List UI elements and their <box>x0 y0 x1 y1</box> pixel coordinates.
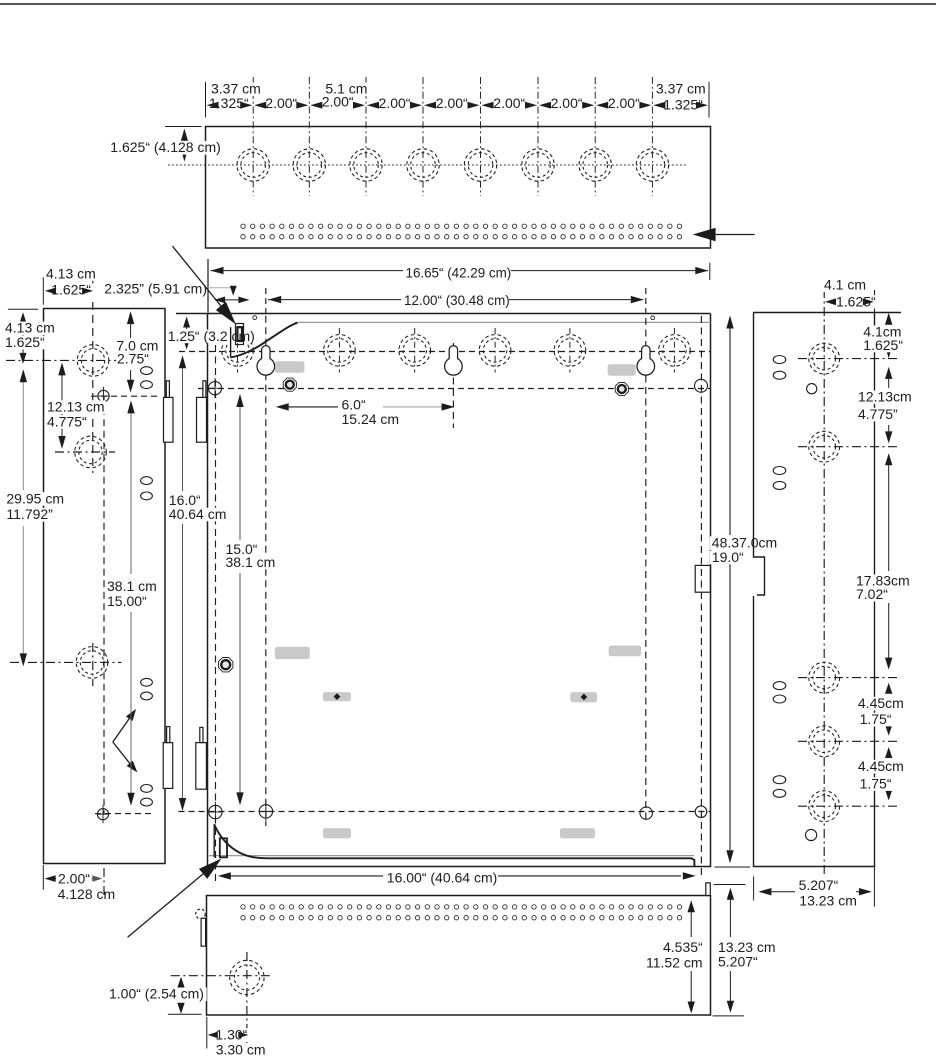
svg-text:38.1 cm: 38.1 cm <box>226 554 276 570</box>
dim 4.13cm/1.625 far left <box>8 308 38 310</box>
bottom knockout crosshair v <box>246 952 248 1043</box>
top hem line (gray) <box>295 321 711 323</box>
top view knockout K8 (dashed double circle) <box>636 149 668 181</box>
dashed row 1 (knockout centers) y=351.4 <box>179 351 711 353</box>
svg-text:4.1 cm: 4.1 cm <box>824 277 866 293</box>
top view: enclosure top panel outline <box>206 127 711 249</box>
svg-text:5.1 cm: 5.1 cm <box>325 81 367 97</box>
svg-text:2.00“: 2.00“ <box>379 95 411 111</box>
bottom edge extension left <box>168 1013 202 1015</box>
dim 4.1cm/1.625 right <box>888 316 890 324</box>
dim 16.65in ticks <box>207 259 209 313</box>
top view knockout K2 (dashed double circle) <box>293 149 325 181</box>
dashed col x=265.8 (keyhole 1) <box>265 316 267 826</box>
dim 1.25in (3.2 cm) <box>186 320 188 329</box>
svg-text:4.535“: 4.535“ <box>663 939 703 955</box>
nut symbol mid-left <box>218 657 232 671</box>
dashed col x=645.8 (keyhole 3) <box>645 318 647 823</box>
top dimension row: end ticks <box>205 82 207 118</box>
svg-text:15.00“: 15.00“ <box>107 593 147 609</box>
svg-text:1.75“: 1.75“ <box>860 776 892 792</box>
dim 4.535/11.52 inside bottom view <box>690 903 692 937</box>
svg-text:4.128 cm: 4.128 cm <box>58 886 116 902</box>
svg-text:1.625“: 1.625“ <box>863 337 903 353</box>
top view knockout K5 centerline <box>480 77 482 196</box>
svg-text:15.24 cm: 15.24 cm <box>342 411 400 427</box>
dim 17.83cm/7.02 right <box>888 456 890 571</box>
svg-text:2.00“: 2.00“ <box>58 871 90 887</box>
svg-text:5.207“: 5.207“ <box>718 954 758 970</box>
plain hole top right <box>695 379 708 392</box>
dim 4.45cm/1.75 lower <box>888 750 890 757</box>
plain hole bottom right <box>695 806 707 818</box>
svg-text:12.13cm: 12.13cm <box>858 389 912 405</box>
svg-text:2.00“: 2.00“ <box>551 95 583 111</box>
bottom hem line (gray) <box>209 855 694 857</box>
top view knockout K1 (dashed double circle) <box>237 149 269 181</box>
left view screw holes <box>98 390 109 401</box>
right view centerline col <box>823 289 825 875</box>
bottom view vents row 1 <box>241 905 682 909</box>
svg-text:1.75“: 1.75“ <box>860 711 892 727</box>
top view: horizontal dotted centerline through knockouts <box>168 164 686 166</box>
svg-text:12.13 cm: 12.13 cm <box>47 399 105 415</box>
dim 1.625 top of right view <box>874 290 876 312</box>
dashed col x=215.4 <box>215 345 217 884</box>
keyhole slots <box>257 346 275 376</box>
left view screw col (dashed) <box>103 396 105 814</box>
2.325 gray reference line + down arrow <box>208 287 237 289</box>
dim 38.1cm/15.00 <box>130 411 132 574</box>
svg-text:19.0“: 19.0“ <box>712 549 744 565</box>
svg-text:11.792”: 11.792” <box>6 506 53 522</box>
top view: ventilation holes row 2 <box>241 235 682 239</box>
screw holes with crosses <box>208 382 221 395</box>
bottom view: front panel outline <box>207 896 711 1016</box>
top view knockout K6 centerline <box>537 77 539 196</box>
dim 15.0in/38.1cm <box>239 405 241 540</box>
dim 2.00in/4.128cm below left view <box>42 865 44 890</box>
dim 12.13cm/4.775 right <box>888 370 890 388</box>
top view knockout K3 centerline <box>365 77 367 196</box>
top view knockout K3 (dashed double circle) <box>350 149 382 181</box>
svg-text:13.23 cm: 13.23 cm <box>718 939 776 955</box>
leader arrow 1 (diagonal, top) <box>173 246 221 306</box>
wire curve top <box>231 323 298 358</box>
screw hole right-center bottom <box>640 807 652 819</box>
right edge extension below <box>873 867 875 907</box>
main back panel outline <box>176 314 711 867</box>
right view vent slots <box>773 356 786 364</box>
svg-text:1.625“: 1.625“ <box>5 334 45 350</box>
wire component bottom-left <box>213 824 215 857</box>
svg-text:7.02“: 7.02“ <box>856 586 888 602</box>
dim 16.0in/40.64cm <box>182 366 184 491</box>
top view knockout K4 centerline <box>422 77 424 196</box>
wire curve bottom <box>214 824 694 866</box>
top view knockout K8 centerline <box>651 77 653 196</box>
main view knockouts top row <box>222 335 254 367</box>
left view knockouts <box>77 345 109 377</box>
left view knockout centerline col <box>92 276 94 473</box>
dim 12.00in ticks (dashed) <box>265 288 267 316</box>
tiny hole below top edge right <box>651 316 655 320</box>
dim 6.0in / 15.24 cm <box>288 406 338 408</box>
svg-text:3.37 cm: 3.37 cm <box>656 81 706 97</box>
top view knockout K6 (dashed double circle) <box>522 149 554 181</box>
right side panel outline <box>753 313 901 867</box>
dim 16.65in (42.29 cm) <box>211 270 404 272</box>
top view knockout K5 (dashed double circle) <box>464 149 496 181</box>
svg-text:40.64 cm: 40.64 cm <box>169 506 227 522</box>
svg-text:2.00“: 2.00“ <box>436 95 468 111</box>
svg-text:4.13 cm: 4.13 cm <box>46 265 96 281</box>
dim 1.30/3.30 <box>206 1017 208 1048</box>
right edge tab <box>695 565 710 592</box>
svg-text:11.52 cm: 11.52 cm <box>646 955 703 971</box>
dim 48.37.0cm 19.0in (right of main box) <box>729 319 731 535</box>
svg-text:2.00“: 2.00“ <box>265 95 297 111</box>
dashed row 3 (bottom screw line) y=811.4 <box>179 811 711 813</box>
dim 4.45cm/1.75 upper <box>888 686 890 693</box>
svg-text:38.1 cm: 38.1 cm <box>107 578 157 594</box>
dim 12.00in (30.48 cm) <box>268 299 401 301</box>
svg-text:2.00“: 2.00“ <box>493 95 525 111</box>
right view knockouts <box>809 343 840 374</box>
left side panel outline <box>44 309 166 864</box>
bottom view left tab: rect <box>201 918 206 946</box>
bottom knockout crosshair h <box>171 975 272 977</box>
dim 29.95cm/11.792 <box>22 372 24 490</box>
svg-text:1.00“ (2.54 cm): 1.00“ (2.54 cm) <box>109 986 204 1002</box>
dim 12.13cm/4.775 (left view) <box>61 374 63 438</box>
top dimension row: segment arrows <box>240 102 252 109</box>
dim 1.00in (2.54 cm) <box>180 980 182 987</box>
page rule top border <box>0 3 936 5</box>
svg-text:2.325” (5.91 cm): 2.325” (5.91 cm) <box>104 281 207 297</box>
top view knockout K1 centerline <box>252 77 254 196</box>
tiny hole below top edge left <box>253 316 257 320</box>
top view knockout K7 (dashed double circle) <box>579 149 611 181</box>
right view knockout rows <box>798 358 897 360</box>
dim 13.23/5.207 right of bottom view <box>714 884 746 886</box>
dim 5.207/13.23 below right view <box>753 876 755 900</box>
svg-text:4.775”: 4.775” <box>858 406 898 422</box>
mounting tabs between views (bottom pair) <box>163 743 173 789</box>
dim 7.0cm/2.75 <box>130 314 132 338</box>
top view: ventilation holes row 1 <box>241 224 682 228</box>
mounting tabs between views (top pair) <box>164 397 174 442</box>
bottom view top-right tab <box>706 883 711 896</box>
svg-text:4.45cm: 4.45cm <box>858 758 904 774</box>
diamond marks on stickers <box>334 693 341 700</box>
gray sticker rects <box>275 361 305 372</box>
svg-text:1.625“ (4.128 cm): 1.625“ (4.128 cm) <box>110 139 221 155</box>
svg-text:2.75“: 2.75“ <box>117 350 149 366</box>
bottom view vents row 2 <box>241 916 682 920</box>
dim 1.625in (4.128 cm) left of top view <box>165 126 202 128</box>
tick right of box bottom <box>714 866 750 868</box>
top view knockout K7 centerline <box>594 77 596 196</box>
svg-text:16.65“ (42.29 cm): 16.65“ (42.29 cm) <box>406 265 512 280</box>
svg-text:12.00“ (30.48 cm): 12.00“ (30.48 cm) <box>404 293 510 308</box>
dim 16.00in (40.64 cm) below main box <box>230 875 383 877</box>
dashed row 2 (screw line) y=388.3 <box>198 388 711 390</box>
top view knockout K2 centerline <box>308 77 310 196</box>
bottom view left tab: dashed circle <box>196 909 206 919</box>
wire component top-left <box>230 327 232 357</box>
svg-text:2.00“: 2.00“ <box>608 95 640 111</box>
svg-text:4.45cm: 4.45cm <box>858 695 904 711</box>
svg-text:5.207“: 5.207“ <box>799 877 839 893</box>
svg-text:3.30 cm: 3.30 cm <box>216 1041 266 1055</box>
vent indicator V arrows <box>113 718 130 743</box>
svg-text:29.95 cm: 29.95 cm <box>6 490 64 506</box>
dashed col x=453.4 (keyhole 2) <box>452 343 454 428</box>
dashed col x=701.4 (right) <box>700 316 702 878</box>
top view knockout K4 (dashed double circle) <box>407 149 439 181</box>
left view screw row lines <box>91 395 160 397</box>
svg-text:13.23 cm: 13.23 cm <box>799 893 857 909</box>
left view vent slots (ovals) <box>141 367 153 375</box>
bottom view knockout <box>230 960 264 994</box>
left view knockout row lines <box>6 359 122 361</box>
big arrow pointing at top view vents <box>716 234 755 236</box>
leader arrow 2 (diagonal, bottom) <box>128 874 204 937</box>
svg-text:4.775“: 4.775“ <box>47 413 87 429</box>
right view plain holes <box>807 384 817 394</box>
nut symbols <box>283 378 296 391</box>
dim 4.13cm/1.625 above left view <box>42 277 44 304</box>
2.325 double arrow <box>216 299 248 301</box>
top dim labels <box>209 83 263 97</box>
svg-text:16.00“ (40.64 cm): 16.00“ (40.64 cm) <box>387 869 498 885</box>
